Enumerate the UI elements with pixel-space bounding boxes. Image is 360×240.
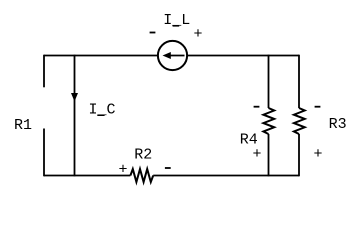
resistor R4 top lead: [268, 55, 270, 108]
svg-text:+: +: [118, 161, 127, 178]
resistor R1 top lead: [43, 55, 45, 88]
svg-text:R3: R3: [329, 116, 347, 133]
svg-text:+: +: [252, 146, 261, 163]
resistor R3 bottom lead: [298, 134, 300, 176]
resistor R4 bottom lead: [268, 134, 270, 176]
resistor R2 zigzag: [130, 169, 153, 182]
minus sign I_L: [150, 32, 156, 34]
wire bottom rail left segment: [44, 175, 130, 177]
wire bottom rail right segment: [153, 175, 299, 177]
minus sign R3: [315, 106, 321, 108]
svg-text:I_C: I_C: [88, 102, 115, 119]
current source arrowhead: [163, 52, 171, 59]
resistor R1 bottom lead: [43, 129, 45, 177]
resistor R4 zigzag: [263, 108, 274, 134]
wire top rail right segment: [188, 55, 300, 57]
svg-text:+: +: [193, 26, 202, 43]
resistor R3 zigzag: [294, 108, 305, 134]
svg-text:R1: R1: [14, 117, 32, 134]
wire I_C branch: [74, 55, 76, 177]
minus sign R4: [254, 106, 260, 108]
current source arrow shaft: [168, 55, 185, 57]
svg-text:+: +: [313, 146, 322, 163]
wire top rail left segment: [44, 55, 158, 57]
resistor R3 top lead: [298, 55, 300, 108]
svg-text:I_L: I_L: [163, 12, 190, 29]
svg-text:R2: R2: [134, 147, 152, 164]
minus sign R2: [165, 167, 171, 169]
current source U1 circle: [158, 41, 187, 70]
current arrow I_C: [71, 93, 78, 102]
